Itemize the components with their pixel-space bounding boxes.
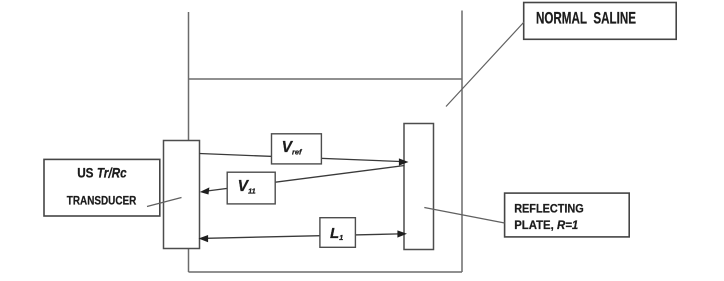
- svg-text:REFLECTING: REFLECTING: [514, 201, 584, 215]
- svg-text:TRANSDUCER: TRANSDUCER: [67, 194, 137, 208]
- svg-text:NORMAL SALINE: NORMAL SALINE: [536, 10, 636, 28]
- svg-text:US Tr/Rc: US Tr/Rc: [77, 166, 127, 181]
- svg-text:PLATE, R=1: PLATE, R=1: [514, 218, 578, 232]
